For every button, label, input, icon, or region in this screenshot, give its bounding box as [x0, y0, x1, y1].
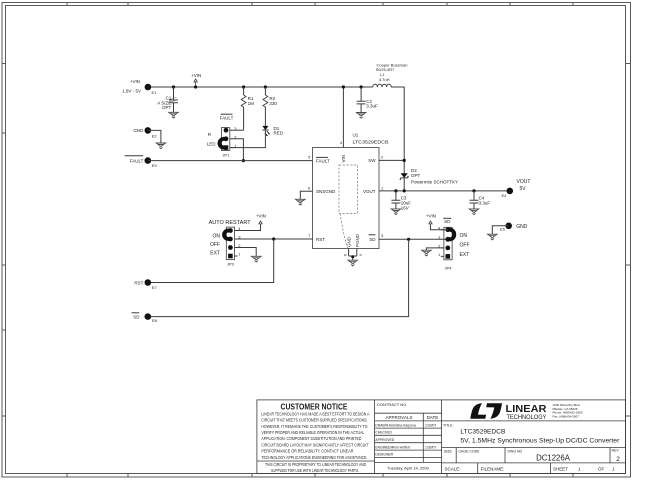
terminal E4 VOUT	[502, 179, 531, 198]
svg-text:E3: E3	[152, 163, 158, 168]
capacitor C4	[470, 189, 491, 209]
ground at JP3	[252, 256, 261, 262]
svg-text:VERIFY PROPER AND RELIABLE OPE: VERIFY PROPER AND RELIABLE OPERATION IN …	[261, 430, 365, 435]
svg-text:LTC3529EDCB: LTC3529EDCB	[353, 140, 389, 145]
svg-text:JP4: JP4	[445, 265, 453, 270]
svg-text:5V: 5V	[520, 186, 527, 192]
frame zone ticks left	[2, 64, 6, 417]
svg-text:APPROVED: APPROVED	[375, 438, 394, 442]
svg-text:330: 330	[269, 101, 277, 106]
svg-text:OF: OF	[598, 467, 605, 472]
svg-text:2: 2	[616, 456, 620, 463]
wire E5 to ground	[492, 226, 508, 234]
wire SD net U1 to JP4	[379, 238, 448, 240]
LT logo	[470, 403, 583, 421]
diode D2	[400, 168, 458, 191]
svg-text:EXT: EXT	[460, 252, 470, 258]
frame zone ticks right	[626, 64, 631, 417]
svg-text:ENGINEER: ENGINEER	[375, 445, 393, 449]
svg-text:SD: SD	[133, 315, 140, 320]
svg-text:FAULT: FAULT	[316, 158, 330, 163]
svg-text:EXT: EXT	[210, 250, 220, 256]
svg-text:FAULT: FAULT	[220, 115, 234, 120]
svg-text:LTC3529EDCB: LTC3529EDCB	[460, 429, 506, 436]
svg-text:Ron Hoffert: Ron Hoffert	[393, 445, 410, 449]
svg-text:RED: RED	[274, 131, 284, 136]
ground at JP4	[422, 250, 431, 256]
svg-text:GND: GND	[347, 236, 352, 247]
svg-text:Antonina Karpova: Antonina Karpova	[389, 423, 416, 427]
terminal E1	[122, 79, 157, 95]
svg-text:1/30/07: 1/30/07	[425, 423, 436, 427]
svg-text:3.3uF: 3.3uF	[479, 200, 491, 205]
capacitor C3	[391, 189, 411, 210]
svg-text:TITLE: TITLE	[443, 424, 453, 428]
svg-text:LINEAR: LINEAR	[506, 403, 547, 415]
node RST junction	[272, 237, 275, 240]
svg-text:GND: GND	[133, 128, 144, 133]
svg-text:DC1226A: DC1226A	[536, 453, 571, 462]
svg-text:SHEET: SHEET	[553, 467, 568, 472]
op-amp U1 LTC3529EDCB box	[313, 133, 389, 249]
jumper JP4	[438, 218, 469, 270]
pin 5 FAULT label	[308, 154, 330, 163]
jumper JP1	[207, 114, 238, 157]
ground at E2	[156, 143, 165, 149]
ground at C1	[169, 112, 178, 118]
svg-text:ON: ON	[213, 234, 221, 240]
pin 4 VIN	[340, 85, 346, 162]
svg-text:SCALE:: SCALE:	[445, 467, 461, 472]
svg-text:16V: 16V	[401, 205, 409, 210]
node SW junction	[403, 159, 406, 162]
svg-text:SD25-4R7: SD25-4R7	[376, 67, 395, 72]
wire E2 to ground	[148, 130, 161, 143]
pins 8,9 GND PGND	[343, 233, 363, 260]
svg-text:+VIN: +VIN	[130, 79, 140, 84]
ground at SNSGND	[296, 199, 305, 205]
svg-text:APPROVALS: APPROVALS	[386, 415, 413, 420]
svg-text:ON: ON	[460, 233, 468, 239]
size / cage / dwg / rev row	[444, 449, 620, 464]
svg-text:SNSGND: SNSGND	[316, 189, 336, 194]
svg-text:U1: U1	[353, 133, 359, 138]
node SD junction	[407, 238, 410, 241]
wire +VIN rail	[148, 86, 373, 88]
svg-text:Fax: (408)434-0507: Fax: (408)434-0507	[553, 414, 580, 418]
jumper JP3	[209, 220, 251, 266]
svg-text:OPT: OPT	[162, 105, 172, 110]
wire JP1 pin2 down to FAULT net	[234, 139, 244, 161]
svg-text:DRAWN: DRAWN	[375, 423, 388, 427]
title text	[443, 424, 620, 445]
svg-text:LINEAR TECHNOLOGY HAS MADE A B: LINEAR TECHNOLOGY HAS MADE A BEST EFFORT…	[261, 411, 369, 416]
svg-text:OFF: OFF	[460, 242, 470, 248]
svg-text:SIZE: SIZE	[444, 450, 452, 454]
svg-text:FAULT: FAULT	[130, 158, 144, 163]
ground at U1	[348, 260, 357, 266]
svg-text:JP3: JP3	[227, 262, 235, 267]
svg-text:GND: GND	[516, 224, 528, 230]
svg-text:OFF: OFF	[210, 242, 220, 248]
svg-text:+VIN: +VIN	[191, 73, 201, 78]
terminal E5 GND	[500, 223, 528, 232]
wire JP4 pin2 to ground	[426, 248, 444, 250]
wire JP1 pin3 to R1	[234, 129, 244, 131]
customer notice text	[261, 402, 369, 473]
svg-text:9: 9	[359, 254, 363, 256]
wire D1 cathode to JP1 pin1	[231, 130, 265, 148]
svg-text:CONTRACT NO.: CONTRACT NO.	[377, 402, 407, 407]
ground at C4	[469, 209, 478, 215]
wire RST net	[238, 238, 313, 240]
svg-text:SUPPLIED FOR USE WITH LINEAR T: SUPPLIED FOR USE WITH LINEAR TECHNOLOGY …	[271, 468, 359, 473]
frame zone ticks top	[67, 3, 573, 6]
wire RST to E7	[148, 239, 274, 283]
svg-text:TECHNOLOGY: TECHNOLOGY	[507, 415, 547, 421]
wire L1 right to SW corner	[391, 87, 404, 174]
terminal E7 RST	[134, 279, 157, 290]
terminal E3 FAULT	[125, 156, 158, 168]
node +VIN at JP4	[426, 214, 448, 230]
svg-text:REV: REV	[612, 449, 620, 453]
svg-text:HOWEVER, IT REMAINS THE CUSTOM: HOWEVER, IT REMAINS THE CUSTOMER'S RESPO…	[261, 424, 368, 429]
svg-text:LED: LED	[207, 141, 217, 146]
svg-text:E7: E7	[152, 285, 158, 290]
svg-text:E2: E2	[152, 134, 158, 139]
U1 exposed pad dashed outline	[339, 165, 358, 248]
svg-text:1.8V - 5V: 1.8V - 5V	[122, 88, 141, 93]
capacitor C1	[157, 85, 178, 112]
node D2/VOUT junction	[403, 189, 406, 192]
svg-text:APPLICATION. COMPONENT SUBSTI: APPLICATION. COMPONENT SUBSTITUTION AND …	[261, 436, 361, 441]
svg-text:TECHNOLOGY APPLICATIONS ENGINE: TECHNOLOGY APPLICATIONS ENGINEERING FOR …	[261, 455, 367, 460]
svg-text:+VIN: +VIN	[256, 214, 266, 219]
pin 6 SNSGND	[300, 185, 336, 199]
svg-text:SD: SD	[444, 219, 451, 224]
svg-text:RST: RST	[316, 237, 325, 242]
svg-text:5V, 1.5MHz Synchronous Step-Up: 5V, 1.5MHz Synchronous Step-Up DC/DC Con…	[460, 438, 620, 445]
frame zone ticks bottom	[67, 474, 573, 478]
ground at C3	[391, 209, 400, 215]
scale / filename / sheet row	[445, 467, 616, 472]
svg-text:VIN: VIN	[341, 155, 346, 163]
svg-text:FILENAME:: FILENAME:	[481, 467, 505, 472]
svg-text:VOUT: VOUT	[517, 179, 531, 185]
inductor L1	[373, 62, 408, 87]
svg-text:E4: E4	[502, 193, 508, 198]
svg-text:PERFORMANCE OR RELIABILITY. C: PERFORMANCE OR RELIABILITY. CONTACT LINE…	[261, 449, 353, 454]
svg-text:E8: E8	[152, 318, 158, 323]
shunt on JP3 pins 4-3	[224, 231, 230, 240]
svg-text:Powermite SCHOTTKY: Powermite SCHOTTKY	[411, 179, 458, 184]
shunt on JP1 pins 2-1	[219, 139, 226, 148]
svg-text:Tuesday, April 14, 2009: Tuesday, April 14, 2009	[387, 466, 429, 471]
wire FAULT net	[148, 160, 313, 162]
svg-text:DATE: DATE	[427, 415, 439, 420]
resistor R2	[263, 85, 277, 126]
svg-text:THIS CIRCUIT IS PROPRIETARY TO: THIS CIRCUIT IS PROPRIETARY TO LINEAR TE…	[265, 462, 366, 467]
svg-text:VOUT: VOUT	[363, 189, 376, 194]
contract / approvals column	[375, 402, 438, 471]
svg-text:RST: RST	[134, 280, 143, 285]
node +VIN at JP3	[238, 214, 267, 231]
svg-text:1/30/07: 1/30/07	[425, 445, 436, 449]
svg-text:+VIN: +VIN	[426, 214, 436, 219]
svg-text:4.7uH: 4.7uH	[379, 77, 390, 82]
svg-text:DWG NO: DWG NO	[508, 450, 523, 454]
svg-text:1M: 1M	[248, 101, 255, 106]
node junction FAULT net	[242, 159, 245, 162]
svg-text:8: 8	[343, 254, 347, 256]
resistor R1	[241, 85, 254, 130]
svg-text:CHECKED: CHECKED	[375, 431, 392, 435]
svg-text:E1: E1	[152, 90, 158, 95]
capacitor C2	[357, 85, 378, 112]
pin 2 SW	[368, 155, 384, 164]
wire JP3 pin2 to ground	[238, 248, 257, 257]
svg-text:CAGE CODE: CAGE CODE	[459, 450, 481, 454]
svg-text:OPT: OPT	[411, 173, 421, 178]
svg-text:CIRCUIT BOARD LAYOUT MAY SIGNI: CIRCUIT BOARD LAYOUT MAY SIGNIFICANTLY A…	[261, 442, 368, 447]
svg-text:CIRCUIT THAT MEETS CUSTOMER-SU: CIRCUIT THAT MEETS CUSTOMER-SUPPLIED SPE…	[261, 418, 367, 423]
svg-text:JP1: JP1	[222, 153, 230, 158]
svg-text:DESIGNER: DESIGNER	[375, 453, 393, 457]
svg-text:AUTO RESTART: AUTO RESTART	[209, 220, 251, 226]
ground at C2	[356, 113, 365, 119]
wire SW stub	[379, 159, 404, 161]
svg-text:SW: SW	[368, 158, 376, 163]
LED D1	[262, 126, 283, 136]
ground at E5	[488, 234, 497, 240]
terminal E2 GND	[133, 127, 157, 139]
svg-text:PGND: PGND	[355, 233, 360, 247]
wire SD to E8	[148, 239, 409, 316]
svg-text:E5: E5	[500, 227, 506, 232]
svg-text:CUSTOMER NOTICE: CUSTOMER NOTICE	[281, 402, 348, 412]
pin 7 RST	[308, 233, 325, 242]
shunt on JP4 pins 4-3	[448, 230, 454, 240]
pin 3 SD	[369, 233, 385, 242]
svg-text:3.3uF: 3.3uF	[366, 103, 378, 108]
wire VOUT net	[379, 190, 510, 192]
node +VIN arrow left	[191, 73, 201, 89]
pin 1 VOUT	[363, 185, 384, 194]
terminal E8 SD	[132, 313, 158, 323]
svg-text:SD: SD	[369, 237, 376, 242]
